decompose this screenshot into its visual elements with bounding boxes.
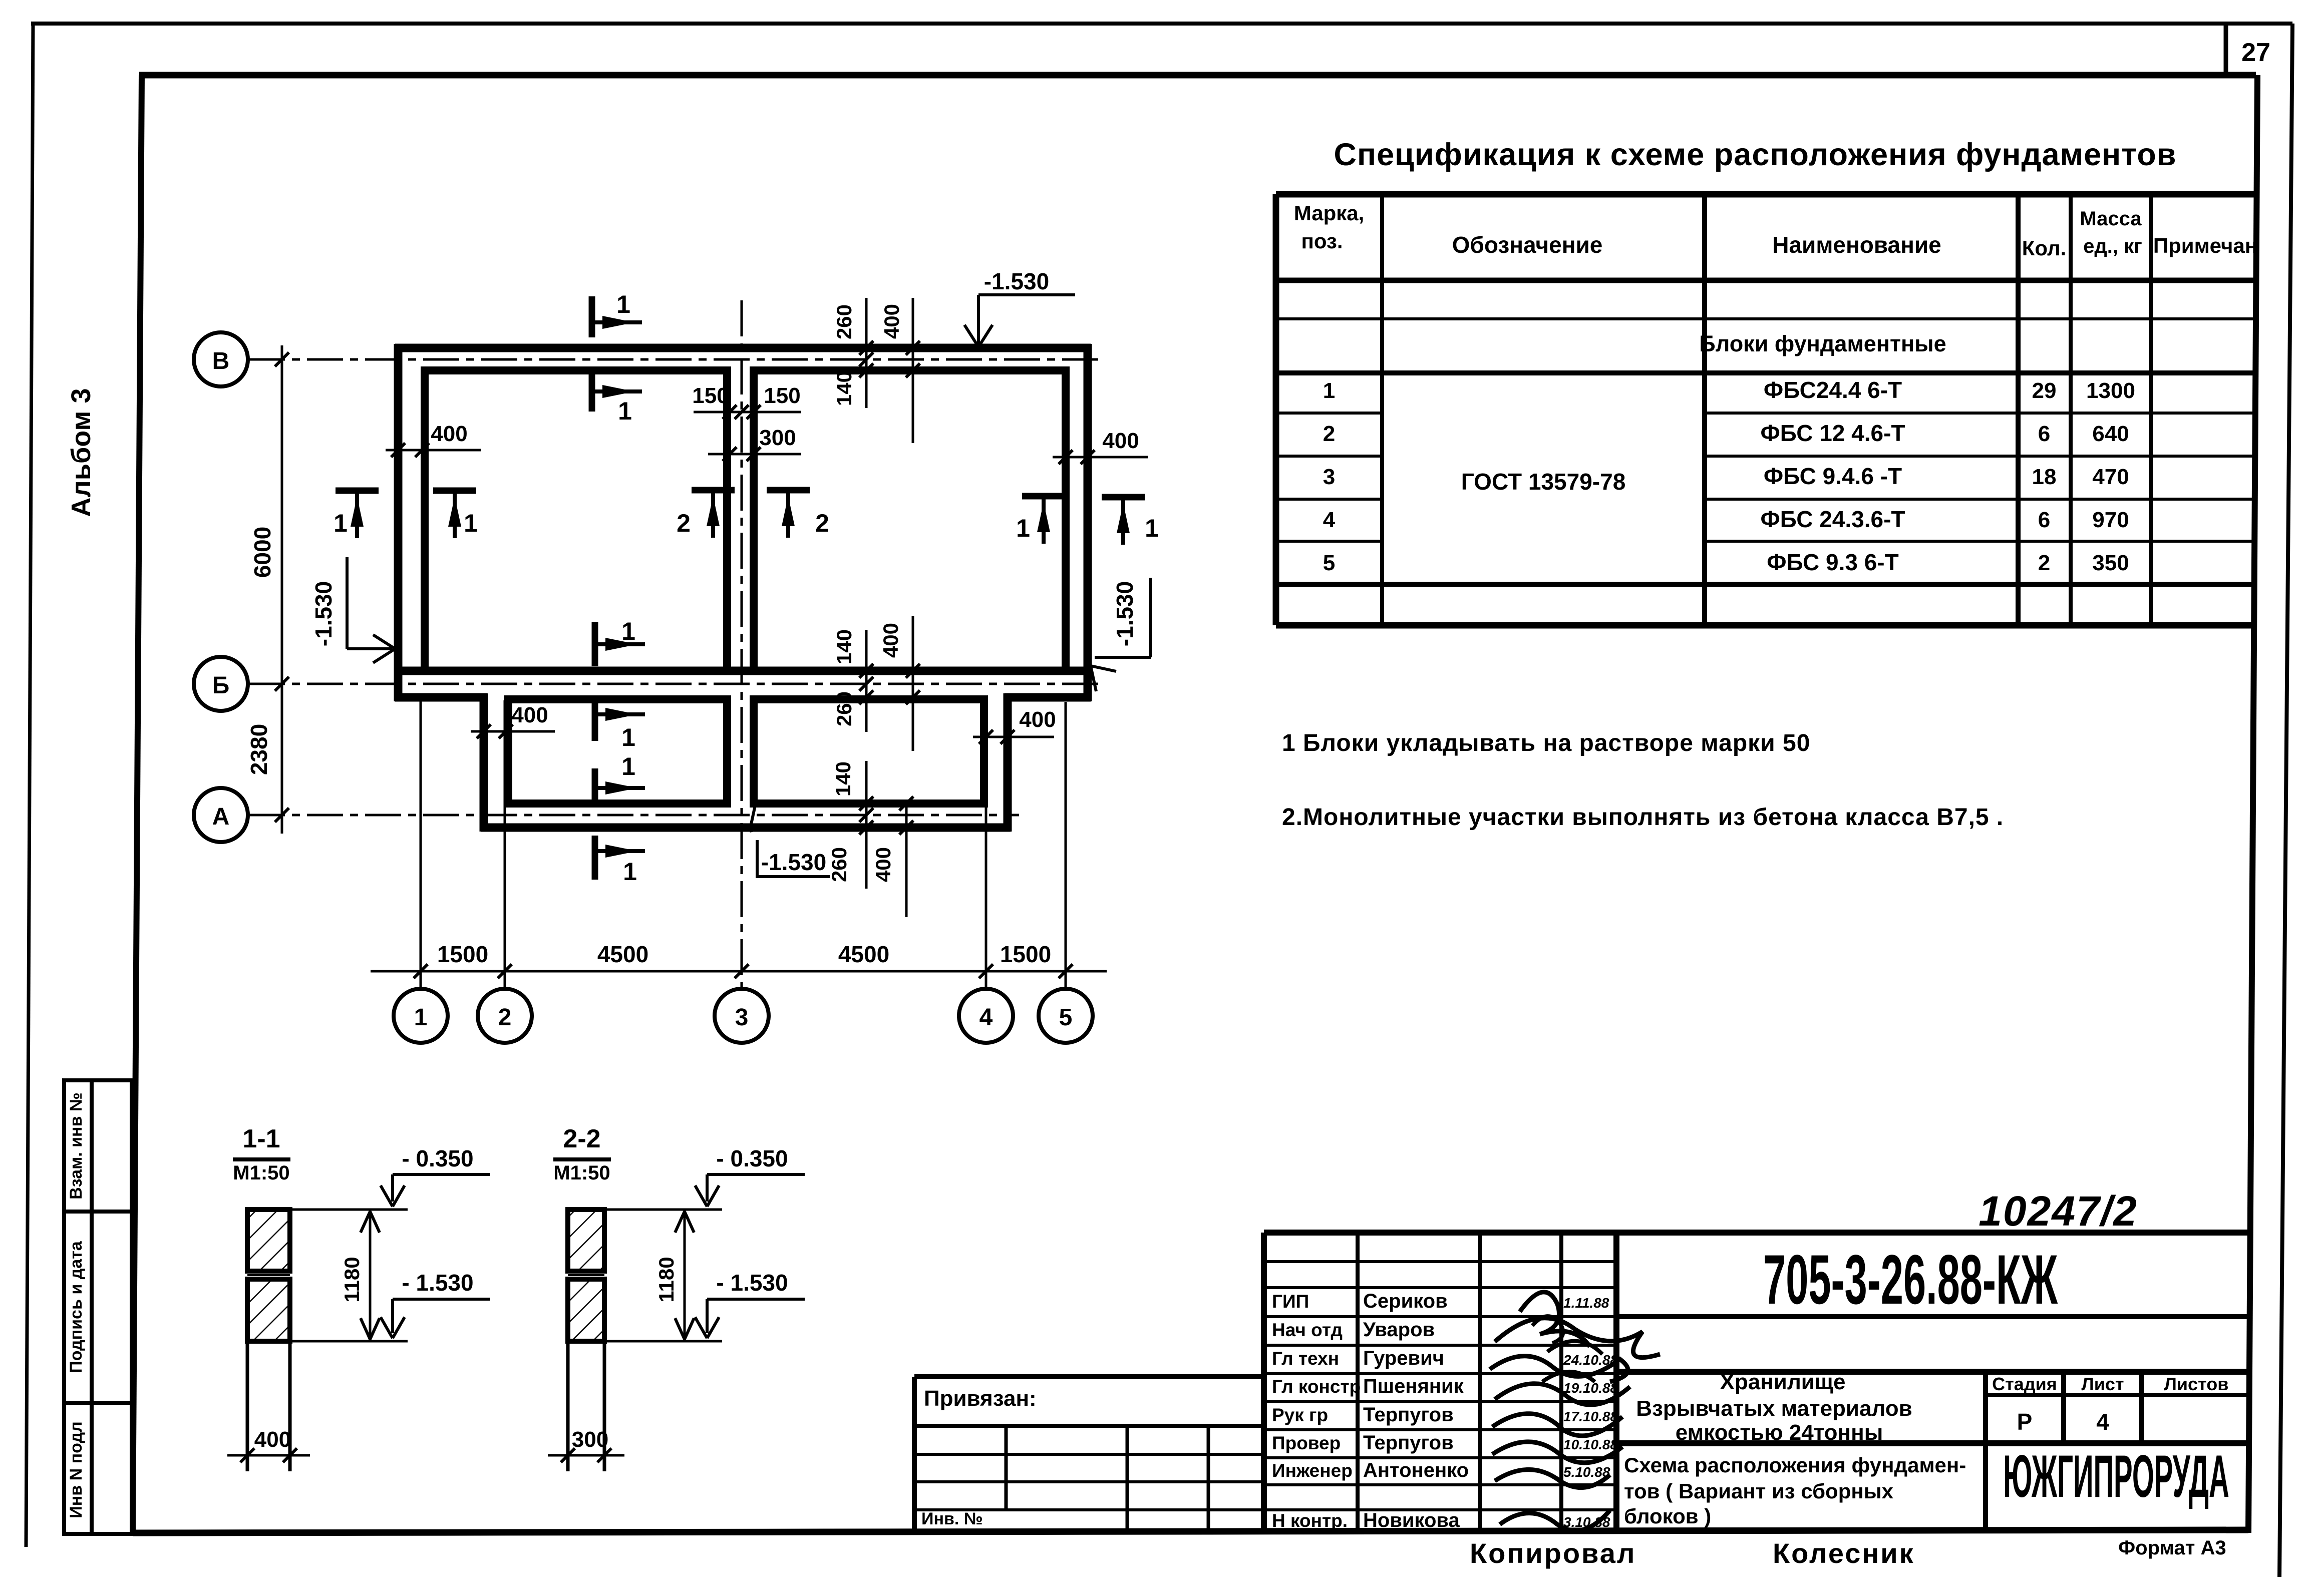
dim 400 top-left wall bbox=[386, 449, 481, 452]
svg-text:ФБС 12 4.6-Т: ФБС 12 4.6-Т bbox=[1760, 420, 1905, 446]
axis А centerline bbox=[249, 814, 1019, 817]
plan: room A inner outline (upper left) bbox=[425, 370, 727, 671]
svg-text:Примечан: Примечан bbox=[2153, 234, 2257, 257]
title block doc designation cell bbox=[1616, 1314, 2252, 1319]
signatures squiggles bbox=[1490, 1292, 1660, 1531]
svg-text:-1.530: -1.530 bbox=[310, 581, 337, 646]
axis 3 centerline bbox=[741, 300, 743, 989]
svg-text:Пшеняник: Пшеняник bbox=[1363, 1375, 1464, 1397]
plan: left wall outer face (axis 1) bbox=[394, 344, 403, 701]
svg-text:Гуревич: Гуревич bbox=[1363, 1347, 1444, 1369]
svg-text:400: 400 bbox=[1102, 429, 1139, 453]
axis 4 line below plan bbox=[985, 700, 987, 989]
svg-text:1: 1 bbox=[621, 723, 635, 751]
svg-text:4500: 4500 bbox=[838, 941, 889, 967]
svg-text:Копировал: Копировал bbox=[1470, 1537, 1636, 1569]
svg-text:140: 140 bbox=[831, 761, 855, 796]
dim 150/150 center wall top bbox=[694, 411, 801, 414]
svg-text:Марка,: Марка, bbox=[1294, 201, 1365, 225]
frame top bbox=[139, 72, 2256, 79]
svg-text:19.10.88: 19.10.88 bbox=[1563, 1380, 1618, 1396]
svg-text:2: 2 bbox=[498, 1004, 512, 1031]
svg-text:4: 4 bbox=[1323, 508, 1336, 532]
svg-text:1-1: 1-1 bbox=[242, 1124, 280, 1153]
plan: bottom wall outer face (axis A) bbox=[481, 824, 1011, 832]
stamp box Inv N podl bbox=[64, 1403, 92, 1534]
plan: room B inner outline (upper right) bbox=[754, 370, 1066, 671]
svg-text:400: 400 bbox=[871, 847, 895, 882]
svg-text:Инв. №: Инв. № bbox=[921, 1509, 983, 1528]
svg-text:1: 1 bbox=[464, 509, 478, 537]
svg-text:Спецификация к схеме располо: Спецификация к схеме расположения фундам… bbox=[1334, 137, 2177, 172]
svg-text:Обозначение: Обозначение bbox=[1452, 232, 1603, 258]
section mark 1 (horizontal) bbox=[592, 836, 598, 880]
svg-text:- 0.350: - 0.350 bbox=[716, 1145, 788, 1171]
svg-text:Терпугов: Терпугов bbox=[1363, 1404, 1454, 1426]
dim 140/260 at bottom wall bbox=[865, 761, 868, 889]
plan: extension left wall outer face (axis 2) bbox=[480, 693, 488, 832]
section 2-2 hatched block upper bbox=[568, 1210, 604, 1271]
svg-text:-1.530: -1.530 bbox=[1112, 581, 1138, 646]
section mark 1 (vertical) bbox=[1102, 494, 1145, 501]
svg-text:400: 400 bbox=[431, 422, 467, 446]
section mark 1 (horizontal) bbox=[589, 371, 595, 412]
organization UZHGIPRORUDA bbox=[2003, 1442, 2229, 1509]
svg-text:Схема расположения фундамен-: Схема расположения фундамен- bbox=[1624, 1453, 1966, 1477]
svg-text:Новикова: Новикова bbox=[1363, 1509, 1460, 1531]
svg-text:400: 400 bbox=[879, 623, 902, 658]
dim 400 at top wall bbox=[912, 298, 914, 443]
svg-text:400: 400 bbox=[880, 304, 903, 339]
svg-text:1500: 1500 bbox=[1000, 941, 1051, 967]
dim 400 extension left wall bbox=[471, 730, 555, 733]
axis circle 1 bbox=[394, 989, 448, 1043]
svg-text:Гл констр: Гл констр bbox=[1272, 1376, 1361, 1397]
svg-text:Уваров: Уваров bbox=[1363, 1319, 1435, 1341]
section mark 1 (vertical) bbox=[433, 488, 476, 494]
svg-text:Б: Б bbox=[212, 672, 230, 699]
table column line bbox=[2016, 194, 2021, 625]
stamp box Vzam inv N bbox=[64, 1080, 92, 1212]
svg-text:Листов: Листов bbox=[2164, 1374, 2229, 1394]
privyazan grid bbox=[1005, 1426, 1008, 1510]
svg-text:400: 400 bbox=[1019, 707, 1056, 732]
axis Б centerline bbox=[249, 683, 1102, 685]
svg-text:1300: 1300 bbox=[2086, 378, 2135, 403]
svg-text:Рук гр: Рук гр bbox=[1272, 1405, 1328, 1425]
svg-text:М1:50: М1:50 bbox=[233, 1162, 289, 1184]
table column line bbox=[1702, 194, 1707, 625]
svg-text:1: 1 bbox=[618, 397, 632, 425]
plan: top wall outer face (axis B) bbox=[395, 344, 1091, 352]
stadia/list/listov header bbox=[1983, 1372, 1988, 1531]
section 2-2 width dim 300 bbox=[548, 1454, 624, 1457]
svg-text:ГИП: ГИП bbox=[1272, 1291, 1309, 1312]
svg-text:- 1.530: - 1.530 bbox=[402, 1270, 473, 1296]
svg-text:140: 140 bbox=[832, 629, 856, 664]
svg-text:705-3-26.88-КЖ: 705-3-26.88-КЖ bbox=[1763, 1241, 2058, 1319]
page number box left bbox=[2224, 24, 2228, 76]
svg-text:1180: 1180 bbox=[654, 1257, 678, 1302]
svg-text:Масса: Масса bbox=[2080, 208, 2142, 230]
svg-text:1500: 1500 bbox=[437, 941, 488, 967]
svg-text:260: 260 bbox=[832, 304, 856, 339]
svg-text:ГОСТ 13579-78: ГОСТ 13579-78 bbox=[1461, 469, 1626, 495]
svg-text:1: 1 bbox=[616, 290, 630, 318]
svg-text:М1:50: М1:50 bbox=[553, 1162, 610, 1184]
outer border top bbox=[31, 22, 2292, 26]
svg-text:ФБС 24.3.6-Т: ФБС 24.3.6-Т bbox=[1760, 506, 1905, 532]
axis circle Б bbox=[194, 657, 248, 711]
svg-text:4: 4 bbox=[979, 1004, 993, 1031]
svg-text:ФБС 9.4.6 -Т: ФБС 9.4.6 -Т bbox=[1764, 463, 1902, 489]
svg-text:Лист: Лист bbox=[2081, 1374, 2124, 1394]
svg-text:4500: 4500 bbox=[597, 941, 648, 967]
svg-text:Р: Р bbox=[2017, 1409, 2033, 1435]
axis circle 2 bbox=[478, 989, 532, 1043]
svg-text:5: 5 bbox=[1059, 1004, 1073, 1031]
svg-text:1180: 1180 bbox=[340, 1257, 364, 1302]
svg-text:Сериков: Сериков bbox=[1363, 1290, 1448, 1312]
svg-text:260: 260 bbox=[832, 691, 856, 726]
section mark 1 (horizontal) bbox=[592, 622, 598, 666]
svg-text:4: 4 bbox=[2096, 1409, 2109, 1435]
svg-text:1: 1 bbox=[334, 509, 348, 537]
section mark 1 (horizontal) bbox=[592, 768, 598, 807]
svg-text:5: 5 bbox=[1323, 551, 1335, 575]
title block grid rows bbox=[1264, 1260, 1616, 1263]
svg-text:3: 3 bbox=[1323, 465, 1335, 489]
svg-text:Колесник: Колесник bbox=[1773, 1537, 1915, 1569]
plan: B-axis wall lower face left segment bbox=[395, 693, 487, 702]
bottom dimension line 1500/4500/4500/1500 bbox=[371, 970, 1107, 973]
svg-text:ед., кг: ед., кг bbox=[2083, 235, 2142, 257]
svg-text:Нач отд: Нач отд bbox=[1272, 1320, 1343, 1340]
svg-text:Подпись и дата: Подпись и дата bbox=[67, 1241, 86, 1373]
axis circle А bbox=[194, 788, 248, 842]
svg-text:Инженер: Инженер bbox=[1272, 1460, 1353, 1481]
frame left bbox=[133, 75, 142, 1533]
svg-text:В: В bbox=[212, 348, 230, 374]
plan: extension right wall outer face (axis 4) bbox=[1004, 693, 1012, 832]
section mark 1 (vertical) bbox=[1022, 493, 1065, 500]
svg-text:470: 470 bbox=[2092, 465, 2129, 489]
svg-text:300: 300 bbox=[572, 1427, 608, 1452]
svg-text:2: 2 bbox=[815, 509, 829, 537]
svg-text:1: 1 bbox=[621, 752, 635, 780]
title block outer bbox=[1264, 1230, 2252, 1236]
title block grid column bbox=[1478, 1233, 1482, 1531]
svg-text:400: 400 bbox=[254, 1427, 291, 1452]
spec table outer frame bbox=[1276, 191, 2256, 198]
section 1-1 top level extension line bbox=[290, 1209, 408, 1211]
dim 260/140 at top wall bbox=[865, 298, 868, 408]
svg-text:18: 18 bbox=[2032, 465, 2057, 489]
section 1-1 wall below bbox=[246, 1341, 249, 1471]
plan: room D inner outline (lower right) bbox=[754, 699, 984, 804]
plan: right wall outer face (axis 5) bbox=[1084, 344, 1092, 701]
svg-text:- 1.530: - 1.530 bbox=[716, 1270, 788, 1296]
title block grid column bbox=[1356, 1233, 1360, 1531]
table column line bbox=[2149, 194, 2153, 625]
svg-text:2: 2 bbox=[2038, 551, 2050, 575]
svg-text:3: 3 bbox=[735, 1004, 749, 1031]
section mark 1 (horizontal) bbox=[592, 700, 598, 741]
title block grid right edge bbox=[1613, 1233, 1619, 1531]
dim 300 center wall bbox=[708, 453, 801, 456]
section 1-1 hatched block lower bbox=[247, 1279, 290, 1341]
svg-text:2-2: 2-2 bbox=[563, 1124, 600, 1153]
svg-text:17.10.88: 17.10.88 bbox=[1563, 1409, 1618, 1424]
section mark 2 (vertical) bbox=[767, 487, 810, 494]
svg-text:Н контр.: Н контр. bbox=[1272, 1510, 1348, 1531]
svg-text:1: 1 bbox=[414, 1004, 428, 1031]
svg-text:ФБС 9.3 6-Т: ФБС 9.3 6-Т bbox=[1767, 549, 1898, 575]
dim 400 at Б wall bbox=[912, 616, 914, 751]
svg-text:Провер: Провер bbox=[1272, 1433, 1341, 1453]
svg-text:1: 1 bbox=[1145, 514, 1159, 542]
svg-text:10.10.88: 10.10.88 bbox=[1563, 1437, 1618, 1452]
table header bottom bbox=[1276, 278, 2256, 283]
left dimension 6000 bbox=[281, 345, 283, 834]
outer border right bbox=[2279, 24, 2292, 1577]
section mark 2 (vertical) bbox=[692, 487, 735, 494]
left dimension 2380 bbox=[275, 808, 289, 822]
svg-text:Кол.: Кол. bbox=[2022, 236, 2067, 260]
svg-text:емкостью 24тонны: емкостью 24тонны bbox=[1676, 1420, 1883, 1445]
svg-text:Привязан:: Привязан: bbox=[924, 1386, 1037, 1411]
svg-text:350: 350 bbox=[2092, 551, 2129, 575]
svg-text:1: 1 bbox=[621, 617, 635, 645]
svg-text:Наименование: Наименование bbox=[1772, 232, 1941, 258]
stamp box Podpis i data bbox=[64, 1212, 92, 1403]
svg-text:Хранилище: Хранилище bbox=[1720, 1370, 1846, 1394]
section 2-2 top level extension line bbox=[604, 1209, 722, 1211]
table column line bbox=[2069, 194, 2073, 625]
svg-text:Инв N подл: Инв N подл bbox=[67, 1421, 86, 1518]
svg-text:1: 1 bbox=[1323, 378, 1335, 403]
svg-text:1: 1 bbox=[1016, 514, 1030, 542]
axis B centerline bbox=[249, 358, 1102, 361]
section mark 1 (horizontal) bbox=[589, 296, 595, 337]
svg-text:970: 970 bbox=[2092, 508, 2129, 532]
section 2-2 wall below bbox=[566, 1341, 570, 1471]
svg-text:2: 2 bbox=[1323, 422, 1335, 446]
axis 1 line below plan bbox=[420, 700, 422, 989]
svg-text:Гл техн: Гл техн bbox=[1272, 1348, 1339, 1369]
section mark 1 (vertical) bbox=[336, 488, 379, 494]
frame right bbox=[2248, 75, 2257, 1533]
svg-text:- 0.350: - 0.350 bbox=[402, 1145, 473, 1171]
title block grid column bbox=[1559, 1233, 1563, 1531]
svg-text:10247/2: 10247/2 bbox=[1979, 1187, 2138, 1235]
svg-text:Формат А3: Формат А3 bbox=[2118, 1537, 2226, 1559]
frame bottom bbox=[133, 1530, 2248, 1533]
section 1-1 height dim 1180 bbox=[369, 1210, 372, 1341]
svg-text:6: 6 bbox=[2038, 508, 2050, 532]
svg-text:ЮЖГИПРОРУДА: ЮЖГИПРОРУДА bbox=[2003, 1442, 2229, 1509]
svg-text:Альбом 3: Альбом 3 bbox=[66, 388, 96, 517]
svg-text:260: 260 bbox=[827, 847, 851, 882]
dim 400 at bottom wall bbox=[905, 800, 908, 917]
svg-text:400: 400 bbox=[511, 703, 548, 727]
svg-text:блоков ): блоков ) bbox=[1624, 1504, 1711, 1528]
dim 400 extension right wall bbox=[973, 736, 1054, 738]
axis circle 4 bbox=[959, 989, 1013, 1043]
svg-text:27: 27 bbox=[2241, 38, 2270, 67]
svg-text:Терпугов: Терпугов bbox=[1363, 1432, 1454, 1454]
svg-text:А: А bbox=[212, 804, 230, 830]
axis circle B bbox=[194, 332, 248, 386]
svg-text:Взрывчатых материалов: Взрывчатых материалов bbox=[1636, 1396, 1912, 1421]
axis circle 5 bbox=[1039, 989, 1093, 1043]
privyazan box bbox=[914, 1374, 1264, 1379]
svg-text:2.Монолитные участки выполнять: 2.Монолитные участки выполнять из бетона… bbox=[1282, 804, 2004, 831]
dim 400 top-right wall bbox=[1053, 456, 1148, 459]
section 1-1 width dim 400 bbox=[227, 1454, 310, 1457]
axis 5 line below plan bbox=[1065, 702, 1067, 989]
svg-text:1: 1 bbox=[623, 858, 637, 886]
svg-text:-1.530: -1.530 bbox=[984, 268, 1049, 294]
svg-text:300: 300 bbox=[759, 426, 796, 450]
svg-text:29: 29 bbox=[2032, 378, 2057, 403]
plan: B-axis wall upper face bbox=[395, 667, 1091, 675]
svg-text:640: 640 bbox=[2092, 422, 2129, 446]
svg-text:тов ( Вариант из сборных: тов ( Вариант из сборных bbox=[1624, 1479, 1894, 1503]
svg-text:6000: 6000 bbox=[249, 527, 275, 578]
plan: room C inner outline (lower left) bbox=[508, 699, 727, 804]
svg-text:140: 140 bbox=[832, 371, 856, 406]
plan: B-axis wall lower face right segment bbox=[1005, 693, 1091, 702]
axis circle 3 bbox=[715, 989, 769, 1043]
outer border left bbox=[26, 24, 33, 1547]
svg-text:6: 6 bbox=[2038, 422, 2050, 446]
svg-text:150: 150 bbox=[692, 383, 729, 408]
svg-text:Блоки фундаментные: Блоки фундаментные bbox=[1699, 331, 1946, 356]
svg-text:2: 2 bbox=[677, 509, 691, 537]
svg-text:поз.: поз. bbox=[1301, 229, 1343, 253]
svg-text:Взам. инв №: Взам. инв № bbox=[67, 1092, 86, 1200]
svg-text:150: 150 bbox=[764, 383, 800, 408]
section 2-2 hatched block lower bbox=[568, 1279, 604, 1341]
svg-text:1.11.88: 1.11.88 bbox=[1563, 1295, 1609, 1311]
svg-text:Антоненко: Антоненко bbox=[1363, 1459, 1469, 1481]
section 2-2 height dim 1180 bbox=[684, 1210, 686, 1341]
svg-text:2380: 2380 bbox=[246, 724, 272, 775]
svg-text:Стадия: Стадия bbox=[1992, 1374, 2057, 1394]
table column line bbox=[1380, 194, 1384, 625]
svg-text:-1.530: -1.530 bbox=[761, 849, 826, 875]
svg-text:ФБС24.4 6-Т: ФБС24.4 6-Т bbox=[1764, 377, 1902, 403]
axis 2 line below plan bbox=[504, 700, 506, 989]
dim 140/260 at Б wall bbox=[865, 630, 868, 732]
svg-text:1 Блоки укладывать на растворе: 1 Блоки укладывать на растворе марки 50 bbox=[1282, 730, 1810, 756]
section 1-1 hatched block upper bbox=[247, 1210, 290, 1271]
